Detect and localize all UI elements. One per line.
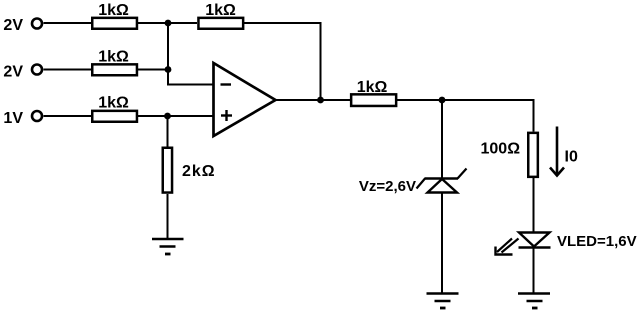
svg-text:1kΩ: 1kΩ — [98, 95, 129, 112]
op-amp U1 — [214, 63, 276, 136]
junction node D (output) — [317, 97, 324, 104]
junction node B — [165, 66, 172, 73]
wire R6 to node E — [397, 99, 442, 101]
wire R4 to feedback corner — [244, 23, 321, 100]
resistor R4 (feedback) — [198, 18, 243, 29]
current arrow I0 — [550, 127, 564, 176]
wire node E down to zener D1 — [441, 100, 443, 179]
svg-text:1kΩ: 1kΩ — [98, 49, 129, 66]
wire R2 to node B — [138, 69, 168, 71]
wire terminal1 to R1 — [44, 22, 92, 24]
resistor R3 — [92, 111, 137, 122]
wire node E to LED branch corner — [442, 100, 534, 132]
svg-text:I0: I0 — [565, 149, 578, 166]
wire node D to R6 — [321, 99, 351, 101]
svg-text:2V: 2V — [3, 17, 23, 34]
svg-text:VLED=1,6V: VLED=1,6V — [557, 233, 637, 250]
wire node A down through node B to inverting input — [168, 23, 214, 85]
svg-text:Vz=2,6V: Vz=2,6V — [359, 178, 416, 195]
wire R1 to node A — [138, 22, 168, 24]
resistor R1 — [92, 18, 137, 29]
svg-text:1kΩ: 1kΩ — [205, 2, 236, 19]
junction node C — [164, 113, 171, 120]
terminal circle row 2 — [32, 65, 42, 75]
resistor R7 (100Ω) — [528, 133, 538, 177]
resistor R5 (2kΩ) — [163, 148, 172, 193]
terminal circle row 1 — [32, 19, 42, 29]
svg-text:1V: 1V — [3, 110, 23, 127]
wire R5 to ground 1 — [167, 194, 169, 239]
wire R7 to LED D2 — [533, 178, 535, 233]
wire D1 to ground 2 — [441, 193, 443, 294]
resistor R6 (output 1kΩ) — [351, 94, 396, 106]
op-amp inverting pin mark (minus) — [221, 83, 232, 85]
LED D2 — [519, 233, 551, 248]
op-amp non-inverting pin mark (plus) — [221, 110, 232, 121]
svg-text:2kΩ: 2kΩ — [182, 163, 216, 180]
LED light emission arrows — [496, 239, 519, 255]
junction node A — [165, 20, 172, 27]
zener diode D1 — [417, 169, 467, 193]
svg-text:2V: 2V — [3, 64, 23, 81]
wire node C down to R5 — [167, 116, 169, 147]
ground symbol 3 — [518, 294, 550, 309]
junction node E — [439, 97, 446, 104]
svg-text:100Ω: 100Ω — [481, 140, 521, 157]
ground symbol 1 — [152, 239, 184, 254]
resistor R2 — [92, 64, 137, 75]
terminal circle row 3 — [32, 111, 42, 121]
wire D2 to ground 3 — [533, 248, 535, 294]
wire node A to feedback resistor R4 — [168, 22, 197, 24]
ground symbol 2 — [427, 294, 459, 309]
wire op-amp output to node D — [276, 99, 321, 101]
wire R3 to node C — [138, 115, 168, 117]
wire node C to non-inverting input — [168, 115, 214, 117]
svg-text:1kΩ: 1kΩ — [98, 2, 129, 19]
svg-text:1kΩ: 1kΩ — [357, 79, 388, 96]
wire terminal2 to R2 — [44, 69, 92, 71]
wire terminal3 to R3 — [44, 115, 92, 117]
